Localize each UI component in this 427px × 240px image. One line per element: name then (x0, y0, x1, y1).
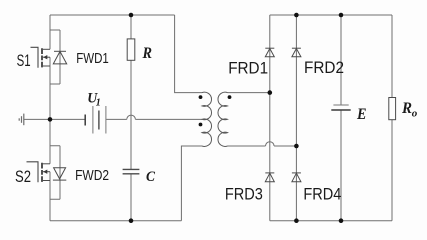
transformer primary winding (202, 92, 212, 146)
node secondary top / FRD1 line (268, 90, 273, 95)
wire left rail middle (S1 source to S2 drain) (49, 57, 51, 164)
wire secondary bottom lead right (274, 145, 296, 147)
svg-text:FRD2: FRD2 (304, 59, 344, 77)
svg-text:E: E (356, 106, 366, 123)
wire E branch lower (340, 110, 342, 221)
svg-text:FWD1: FWD1 (76, 50, 109, 67)
wire primary bottom lead (181, 146, 202, 221)
wire bottom-left rail (50, 220, 181, 222)
capacitor C (123, 169, 140, 173)
wire hop over FRD1 line (266, 142, 275, 146)
node top rail / R (129, 13, 134, 18)
wire mid (battery to hop) (106, 118, 127, 120)
diode FWD1 (53, 51, 66, 64)
node top rail / E (339, 13, 344, 18)
svg-text:1: 1 (96, 98, 101, 109)
wire Ro branch lower (391, 120, 393, 221)
wire E branch upper (340, 15, 342, 105)
svg-text:o: o (412, 108, 418, 120)
wire FWD1 branch (50, 30, 60, 84)
wire secondary bottom lead left (228, 145, 266, 147)
svg-text:FRD4: FRD4 (303, 185, 341, 203)
node bottom rail / E (339, 218, 344, 223)
svg-text:FRD3: FRD3 (225, 186, 263, 204)
svg-text:C: C (146, 169, 156, 185)
wire secondary top lead (228, 92, 270, 94)
wire FRD1-FRD3 vertical (269, 15, 271, 221)
wire mid (ground to battery) (24, 118, 85, 120)
wire mid (hop to primary centre tap) (135, 118, 202, 120)
wire FRD2-FRD4 vertical (295, 15, 297, 221)
wire left rail upper (S1 drain) (49, 15, 51, 49)
wire Ro branch upper (391, 15, 393, 98)
node bottom rail / FRD4 (294, 218, 299, 223)
wire left rail lower (S2 source to bottom) (49, 172, 51, 221)
diode FWD2 (53, 168, 66, 180)
wire top-right rail (270, 14, 392, 16)
resistor Ro (389, 98, 396, 120)
svg-text:FWD2: FWD2 (75, 167, 109, 184)
resistor R (127, 39, 135, 60)
polarity dot primary upper (199, 95, 203, 99)
node top rail / FRD2 (294, 13, 299, 18)
diode FRD1 (265, 48, 274, 57)
svg-text:R: R (401, 100, 412, 117)
ground (19, 114, 24, 126)
capacitor E (331, 105, 350, 110)
wire FWD2 branch (50, 146, 60, 200)
wire R branch top (130, 15, 132, 39)
svg-text:S1: S1 (17, 51, 31, 70)
transistor S2 (27, 162, 51, 183)
svg-text:FRD1: FRD1 (228, 60, 268, 78)
transistor S1 (31, 47, 51, 68)
node bottom rail / C (129, 218, 134, 223)
battery U1 (85, 106, 106, 134)
svg-text:R: R (142, 45, 152, 62)
wire primary top lead (175, 15, 202, 93)
diode FRD4 (292, 173, 301, 182)
wire top-left rail (50, 14, 175, 16)
polarity dot secondary (228, 95, 232, 99)
wire bottom-right rail (270, 220, 392, 222)
diode FRD2 (292, 48, 301, 57)
wire R to C (130, 60, 132, 169)
diode FRD3 (265, 173, 274, 182)
node midpoint S1-S2 (48, 117, 53, 122)
polarity dot primary lower (199, 123, 203, 127)
svg-text:S2: S2 (15, 167, 31, 186)
node secondary bottom / FRD2 line (294, 144, 299, 149)
wire C to bottom rail (130, 174, 132, 221)
transformer secondary winding (218, 92, 228, 146)
wire hop over R-C line (127, 115, 136, 119)
